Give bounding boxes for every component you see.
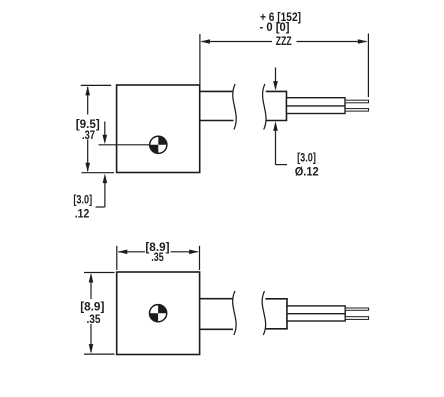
dimension ZZZ line left segment [202, 41, 273, 43]
wire - cable stub top (bottom view) [200, 298, 233, 300]
leader arrow to centerline [104, 122, 106, 137]
sleeve middle line (bottom view) [287, 313, 345, 315]
cable sleeve (bottom view) [287, 306, 345, 321]
dimension [9.5]/.37 height lines [81, 84, 112, 86]
svg-text:- 0 [0]: - 0 [0] [260, 20, 290, 34]
lead wire top (side view) [345, 100, 369, 103]
svg-text:.35: .35 [151, 250, 164, 264]
centerline to datum target (side view) [99, 144, 151, 146]
body outline (side view) [117, 85, 200, 173]
dimension [8.9]/.35 height line [90, 275, 92, 300]
lead wire top (bottom view) [345, 308, 368, 310]
dimension cable diameter upper arrow [275, 68, 277, 84]
wire - cable stub bottom (side view) [200, 120, 234, 122]
dimension [8.9]/.35 height ticks [84, 272, 115, 274]
dimension ZZZ extension line right [367, 34, 369, 98]
body outline (bottom view) [117, 272, 200, 355]
break symbol wave 1 (bottom view) [233, 291, 236, 335]
datum target symbol (bottom view) [150, 305, 167, 322]
sleeve middle line (side view) [287, 105, 346, 107]
svg-text:.35: .35 [87, 312, 101, 326]
svg-text:Ø.12: Ø.12 [295, 164, 319, 178]
connector body (side view) [266, 91, 287, 120]
dimension [3.0]/.12 leader (body bottom offset) [103, 174, 108, 184]
lead wire bottom (bottom view) [345, 317, 368, 320]
cable sleeve (side view) [287, 98, 346, 114]
dimension cable diameter lower arrow + elbow [273, 121, 278, 131]
svg-text:[3.0]: [3.0] [73, 193, 92, 207]
svg-text:.37: .37 [82, 128, 95, 142]
wire - cable stub top (side view) [200, 90, 234, 92]
break symbol wave 1 (side view) [233, 84, 236, 130]
connector body (bottom view) [265, 299, 287, 329]
datum target symbol (side view) [150, 136, 167, 153]
svg-text:.12: .12 [75, 207, 90, 221]
break symbol wave 2 (side view) [263, 84, 266, 130]
dimension [8.9]/.35 width extension lines [116, 246, 118, 270]
lead wire bottom (side view) [345, 109, 369, 112]
dimension ZZZ extension line left [199, 34, 201, 85]
break symbol wave 2 (bottom view) [262, 291, 265, 335]
wire - cable stub bottom (bottom view) [200, 328, 233, 330]
dimension ZZZ line right segment [297, 41, 367, 43]
svg-text:ZZZ: ZZZ [276, 34, 292, 48]
svg-text:[3.0]: [3.0] [297, 150, 316, 164]
dimension [8.9]/.35 width line [118, 251, 145, 253]
